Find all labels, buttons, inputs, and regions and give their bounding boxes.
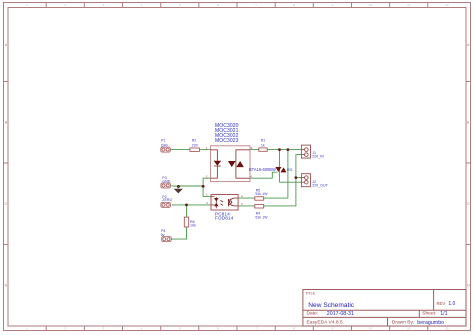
svg-text:11: 11 xyxy=(407,327,410,331)
svg-text:MOC3023: MOC3023 xyxy=(215,138,239,144)
svg-text:Drawn By:: Drawn By: xyxy=(392,320,415,326)
svg-text:beragumbo: beragumbo xyxy=(417,320,444,326)
svg-text:5v: 5v xyxy=(161,233,165,237)
svg-text:11: 11 xyxy=(407,3,410,7)
svg-text:1.0: 1.0 xyxy=(448,301,455,307)
svg-text:GND: GND xyxy=(162,179,170,183)
svg-text:10: 10 xyxy=(369,3,373,7)
svg-text:10k: 10k xyxy=(190,223,196,227)
svg-text:FOD814: FOD814 xyxy=(215,216,234,221)
svg-text:1/1: 1/1 xyxy=(440,311,447,317)
svg-text:12: 12 xyxy=(445,3,449,7)
svg-text:EasyEDA V4.8.5: EasyEDA V4.8.5 xyxy=(307,320,343,326)
svg-text:51k 1W: 51k 1W xyxy=(255,215,268,219)
svg-text:REV: REV xyxy=(437,301,446,306)
svg-text:ZERO: ZERO xyxy=(162,198,172,202)
svg-text:10: 10 xyxy=(369,327,373,331)
svg-text:New Schematic: New Schematic xyxy=(308,302,355,309)
svg-text:R1: R1 xyxy=(261,138,266,142)
svg-text:Sheet:: Sheet: xyxy=(422,311,436,317)
svg-text:Date:: Date: xyxy=(307,311,319,317)
svg-text:P1: P1 xyxy=(161,138,165,142)
svg-text:220_OUT: 220_OUT xyxy=(312,183,328,187)
svg-text:51k 1W: 51k 1W xyxy=(255,192,268,196)
svg-text:DIM: DIM xyxy=(161,144,168,148)
svg-text:2017-08-31: 2017-08-31 xyxy=(327,311,354,317)
svg-text:1k: 1k xyxy=(261,144,265,148)
svg-text:220_IN: 220_IN xyxy=(312,154,324,158)
svg-text:RG: RG xyxy=(287,168,293,172)
svg-text:12: 12 xyxy=(445,327,449,331)
svg-text:BTA16-600BW: BTA16-600BW xyxy=(249,167,276,172)
svg-text:R2: R2 xyxy=(192,138,197,142)
svg-text:TITLE:: TITLE: xyxy=(305,292,316,296)
svg-text:220: 220 xyxy=(192,144,198,148)
